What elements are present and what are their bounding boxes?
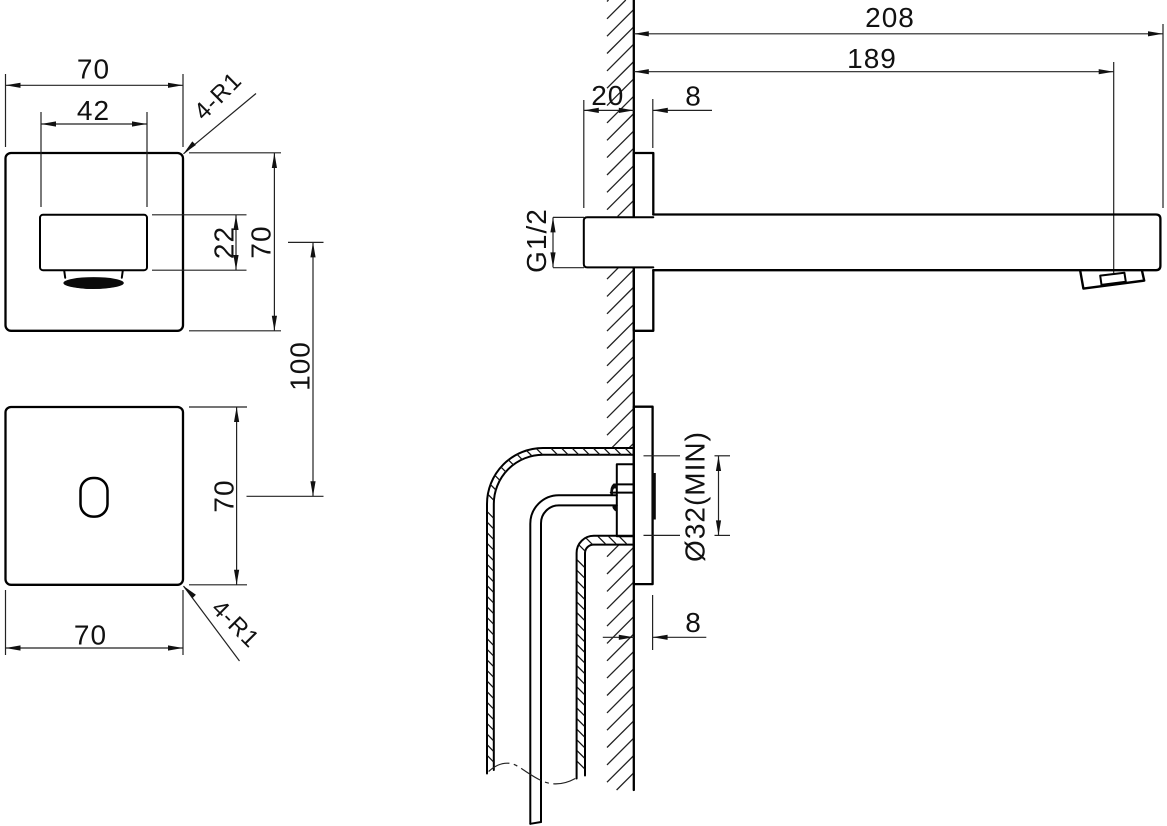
break (wavy) line at basin	[489, 763, 578, 784]
front view: spout body inner rectangle	[40, 215, 147, 270]
svg-text:22: 22	[209, 226, 240, 259]
svg-text:70: 70	[209, 479, 240, 512]
dimension 8 top (plate thickness)	[653, 99, 712, 148]
sensor window (side, black bar)	[652, 473, 656, 520]
dimension 42 (inner width)	[41, 112, 147, 207]
dimension 70 right (front spout height)	[189, 153, 281, 331]
wall face line	[633, 0, 635, 790]
wall section hatching	[607, 0, 634, 790]
sensor box hose fitting details	[610, 484, 617, 512]
sensor box (behind wall)	[611, 464, 634, 536]
spout outlet nozzle (tilted)	[1080, 271, 1144, 288]
wall escutcheon plate (side)	[634, 153, 654, 331]
dimension 22 (spout body height)	[152, 215, 247, 270]
G1/2 threaded connector	[584, 217, 654, 267]
front view: sensor face plate square	[6, 407, 184, 585]
svg-text:Ø32(MIN): Ø32(MIN)	[680, 431, 711, 562]
svg-text:70: 70	[77, 54, 110, 85]
front view: sensor window oval	[81, 478, 108, 517]
svg-text:8: 8	[685, 81, 702, 112]
conduit outer wall (section)	[487, 448, 634, 774]
svg-text:20: 20	[591, 80, 624, 111]
dimension G1/2	[550, 217, 584, 267]
dimension 8 bottom (sensor plate thickness)	[603, 595, 707, 650]
leader 4-R1 bottom corner	[184, 586, 240, 661]
dimension Ø32(MIN) (wall hole)	[644, 456, 731, 536]
svg-text:G1/2: G1/2	[521, 208, 552, 273]
leader 4-R1 top corner	[184, 94, 257, 154]
water supply pipe (elbow)	[530, 495, 617, 824]
conduit inner wall hatch ticks	[577, 536, 626, 768]
dimension 70 bottom (sensor width)	[6, 590, 184, 655]
dimension 189 (to outlet)	[634, 62, 1114, 273]
svg-text:8: 8	[685, 607, 702, 638]
dimension 20 (wall side)	[584, 100, 634, 208]
dimension 100 (spout to sensor distance)	[247, 242, 324, 496]
spout tube (side)	[653, 215, 1160, 271]
dimension 70 right (sensor height)	[189, 407, 247, 585]
front view: aerator dark ellipse	[63, 277, 123, 289]
front view: aerator collar	[64, 271, 123, 278]
svg-text:42: 42	[77, 95, 110, 126]
dimension 70 top (front spout width)	[6, 74, 184, 147]
sensor escutcheon plate (side)	[634, 407, 653, 584]
conduit inner wall (section)	[577, 536, 634, 779]
front view: spout face plate square	[6, 153, 184, 331]
svg-text:100: 100	[285, 341, 316, 391]
svg-text:189: 189	[847, 43, 897, 74]
svg-text:70: 70	[74, 620, 107, 651]
svg-text:70: 70	[246, 225, 277, 258]
svg-text:208: 208	[865, 2, 915, 33]
dimension 208 (total length)	[634, 24, 1163, 208]
conduit outer wall hatch ticks	[488, 448, 633, 762]
